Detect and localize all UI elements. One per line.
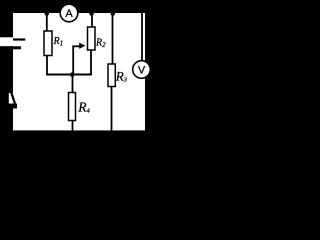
black surround background	[0, 0, 156, 137]
white circuit canvas	[13, 13, 145, 130]
wiper arm vertical wire	[72, 46, 74, 75]
wire R1 bottom to node	[46, 56, 48, 76]
resistor R4	[69, 93, 76, 121]
resistor R2	[88, 27, 96, 50]
wire top band to voltmeter	[141, 13, 143, 61]
wire top band to R2	[91, 13, 93, 27]
resistor R1	[44, 31, 52, 56]
switch blade	[11, 93, 15, 104]
switch: gap in left border	[9, 93, 15, 104]
wiper arrowhead pointing at R2	[79, 43, 85, 49]
ammeter A circle	[60, 4, 78, 22]
switch contact foot	[9, 104, 17, 109]
svg-text:V: V	[138, 65, 146, 77]
wire R2 bottom to node	[90, 50, 92, 75]
node dot top for R3 wire	[111, 11, 115, 15]
wire bottom horizontal R1-R2	[46, 74, 92, 76]
svg-text:A: A	[65, 8, 73, 20]
junction node dot	[70, 72, 75, 77]
battery short plate (bottom)	[0, 46, 21, 49]
wiper arm horizontal wire	[72, 45, 80, 47]
node dot top for R2 wire	[89, 11, 93, 15]
wire top band to R3	[112, 13, 114, 64]
wire junction to R4	[72, 75, 74, 93]
resistor R3	[108, 64, 115, 87]
battery: gap in left border	[0, 37, 14, 46]
wire R4 bottom to bottom band	[72, 121, 74, 132]
battery long plate (top)	[13, 38, 25, 40]
wire top band to R1	[46, 13, 48, 31]
wire R3 bottom to bottom band	[111, 87, 113, 132]
node dot top for R1 wire	[45, 11, 49, 15]
voltmeter V circle	[133, 61, 151, 79]
